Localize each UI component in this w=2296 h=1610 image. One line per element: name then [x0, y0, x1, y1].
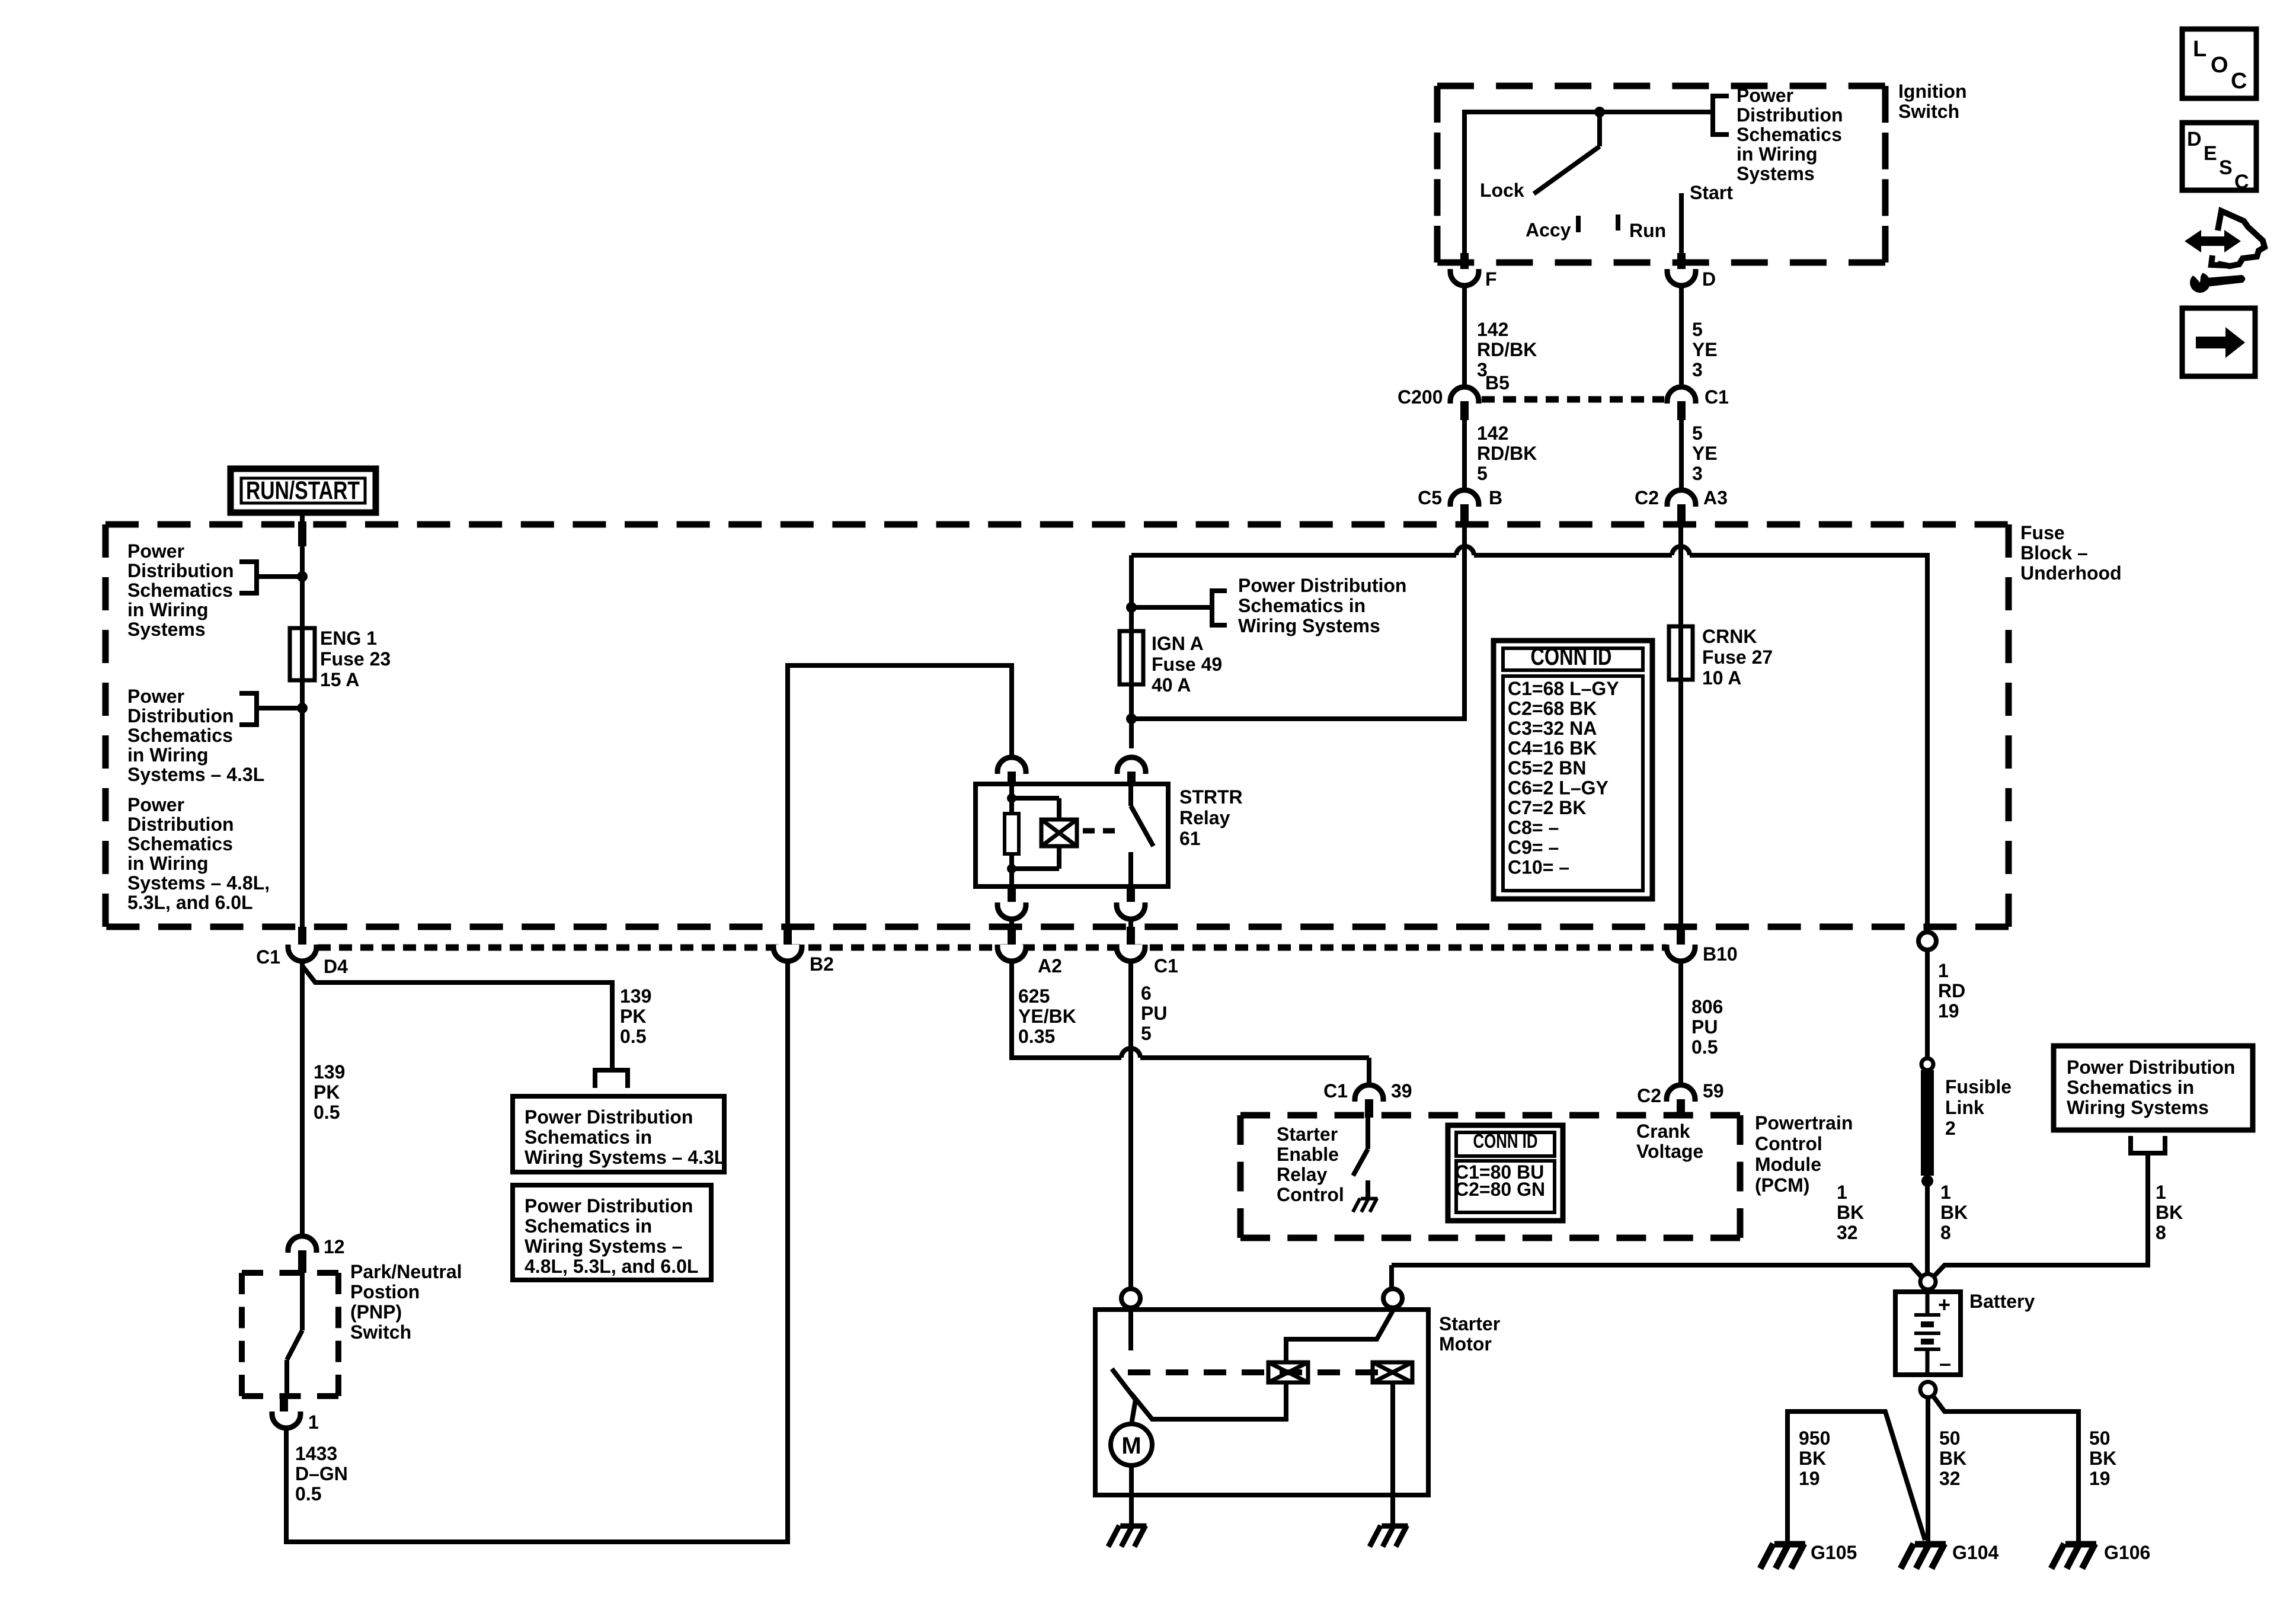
- svg-text:Power DistributionSchematics i: Power DistributionSchematics inWiring Sy…: [525, 1195, 698, 1277]
- wire CRNK vertical upper: [1678, 524, 1683, 626]
- connector relay pin bottom right: [1127, 886, 1135, 902]
- connector C200 B5: [1450, 387, 1479, 404]
- svg-text:39: 39: [1391, 1080, 1412, 1102]
- connector C200 C1: [1667, 387, 1696, 404]
- wire hop over CRNK wire: [1672, 546, 1690, 555]
- connector C1 39: [1355, 1085, 1383, 1102]
- PNP switch internals: [300, 1273, 305, 1330]
- svg-text:B2: B2: [810, 953, 834, 975]
- RUN/START label box: [231, 469, 376, 513]
- bracket to Power Distribution Schematics 1: [239, 562, 257, 593]
- bracket to reference boxes: [595, 1070, 628, 1088]
- node fusible link bottom: [1921, 1175, 1933, 1187]
- wire F to C200: [1462, 286, 1467, 388]
- relay switch fixed contact: [1128, 852, 1133, 886]
- svg-text:B: B: [1489, 487, 1502, 508]
- wire ignition feed horizontal: [1464, 110, 1713, 114]
- relay STRTR box: [976, 784, 1168, 886]
- connector C2 A3: [1667, 490, 1696, 507]
- svg-text:StarterMotor: StarterMotor: [1439, 1313, 1500, 1355]
- connector relay pin top left: [997, 757, 1026, 774]
- svg-text:G106: G106: [2104, 1542, 2150, 1563]
- svg-text:M: M: [1121, 1433, 1141, 1459]
- svg-text:CONN ID: CONN ID: [1531, 642, 1612, 670]
- svg-text:C5: C5: [1418, 487, 1442, 508]
- relay linkage dashed: [1083, 828, 1115, 834]
- wire B internal horizontal: [1131, 716, 1467, 721]
- ground G106: [2065, 1541, 2096, 1548]
- C200 connector dashed line: [1482, 396, 1664, 403]
- svg-text:B10: B10: [1703, 943, 1738, 965]
- connector relay pin bottom left: [1008, 886, 1016, 902]
- wire IGN A vertical: [1129, 555, 1134, 631]
- tick Accy: [1576, 216, 1581, 232]
- svg-text:C: C: [2231, 69, 2247, 94]
- starter motor M: [1111, 1424, 1152, 1465]
- node ignition feed junction: [1594, 107, 1605, 117]
- svg-text:CONN ID: CONN ID: [1473, 1130, 1538, 1152]
- wire relay out right: [1128, 919, 1133, 928]
- small circle fusible link top: [1921, 1058, 1933, 1070]
- fuse CRNK Fuse 27: [1678, 626, 1683, 680]
- wire ignition feed vertical: [1462, 110, 1467, 253]
- fuse block bottom connector dashed line: [318, 945, 1667, 951]
- svg-text:C1: C1: [1705, 386, 1729, 408]
- starter enable switch: [1366, 1118, 1370, 1149]
- tick Run: [1616, 215, 1620, 231]
- wire B internal vertical: [1462, 524, 1467, 719]
- svg-text:G105: G105: [1811, 1542, 1857, 1563]
- connector B10: [1677, 927, 1685, 947]
- wire hop over B wire: [1456, 546, 1474, 555]
- starter switch lever: [1112, 1369, 1136, 1400]
- node ENG1 upper junction: [297, 571, 308, 582]
- wire to bracket 3: [1131, 605, 1212, 610]
- wire C1 to starter motor: [1128, 961, 1133, 1289]
- relay switch lever: [1131, 806, 1153, 846]
- svg-text:A3: A3: [1703, 487, 1728, 508]
- bracket to Power Distribution Schematics 2: [239, 693, 257, 725]
- ground (starter solenoid): [1382, 1523, 1408, 1529]
- wire RUN/START to fuse: [300, 513, 305, 628]
- connector relay pin top right: [1117, 757, 1146, 774]
- wire M to ground: [1129, 1465, 1134, 1523]
- node relay coil bottom: [1007, 864, 1016, 873]
- icon vehicle with arrow and wrench: [2185, 230, 2241, 252]
- wire D4 down to PNP: [300, 961, 305, 1238]
- relay coil pin wire: [1009, 784, 1014, 814]
- fusible link 2: [1921, 1070, 1934, 1176]
- wire hop A2 over C1: [1121, 1048, 1140, 1058]
- wire reference box to battery: [1933, 1153, 2148, 1277]
- battery cells: [1926, 1289, 1930, 1315]
- node relay coil top: [1007, 793, 1016, 803]
- wire battery negative to G106 branch: [1933, 1395, 2078, 1541]
- reference box Power Distribution (right): [2054, 1046, 2253, 1130]
- svg-text:D4: D4: [324, 956, 348, 977]
- svg-text:Lock: Lock: [1480, 180, 1524, 201]
- ground (starter motor M): [1120, 1523, 1146, 1529]
- wire battery negative to G104: [1926, 1396, 1930, 1541]
- wire G105 branch: [1787, 1411, 1925, 1541]
- bracket to Power Distribution Schematics (ignition): [1713, 96, 1729, 135]
- fuse IGN A Fuse 49: [1129, 631, 1134, 684]
- svg-text:C1: C1: [1154, 955, 1178, 977]
- svg-text:B5: B5: [1485, 372, 1510, 393]
- svg-text:59: 59: [1703, 1080, 1724, 1102]
- svg-text:D: D: [1702, 268, 1716, 290]
- wire relay out left: [1009, 919, 1014, 928]
- svg-text:G104: G104: [1952, 1542, 1998, 1563]
- relay resistor: [1005, 814, 1019, 854]
- connector F: [1460, 253, 1469, 271]
- svg-text:12: 12: [324, 1236, 345, 1257]
- junction circle battery positive: [1920, 1274, 1936, 1289]
- wire battery to starter solenoid: [1392, 1265, 1923, 1278]
- wire feed to fusible link: [1925, 950, 1930, 1059]
- fuse block dashed box: [105, 521, 2009, 528]
- connector C1 (relay output): [1127, 927, 1135, 947]
- wire D to C1: [1679, 286, 1684, 388]
- junction circle fuse block feed: [1918, 932, 1936, 950]
- svg-text:C1=80 BUC2=80 GN: C1=80 BUC2=80 GN: [1455, 1161, 1545, 1200]
- wire fusible link to battery: [1925, 1181, 1930, 1275]
- bracket below reference box: [2131, 1136, 2165, 1153]
- wire main feed right vertical: [1925, 553, 1930, 933]
- connector C5 B: [1450, 490, 1479, 507]
- wire solenoid corner: [1389, 1265, 1394, 1289]
- svg-text:C1: C1: [256, 946, 280, 968]
- svg-text:RUN/START: RUN/START: [246, 476, 360, 505]
- connector C1 D4: [298, 927, 306, 947]
- battery box: [1895, 1292, 1961, 1375]
- junction circle starter right: [1383, 1289, 1402, 1308]
- icon forward arrow box: [2182, 308, 2255, 376]
- svg-text:Battery: Battery: [1969, 1291, 2035, 1312]
- wire ENG1 to C1 connector: [300, 680, 305, 935]
- wire to bracket 2: [257, 706, 302, 710]
- ground (starter enable): [1361, 1197, 1378, 1201]
- wire B5 to C5: [1462, 420, 1467, 491]
- reference box Wiring Systems 4.8 5.3 6.0: [513, 1185, 711, 1280]
- icon DESC box: [2182, 123, 2256, 190]
- starter switch stub: [1128, 1308, 1133, 1350]
- wire Start contact: [1679, 193, 1684, 253]
- relay resistor bottom wire: [1009, 854, 1014, 886]
- starter hold-in coil: [1373, 1362, 1412, 1382]
- junction circle starter left: [1121, 1289, 1140, 1308]
- wire solenoid to ground: [1390, 1382, 1395, 1523]
- svg-text:C: C: [2234, 171, 2249, 193]
- PCM dashed box: [1240, 1112, 1740, 1119]
- ignition switch lever: [1597, 112, 1602, 146]
- svg-text:F: F: [1485, 268, 1497, 290]
- svg-text:C1: C1: [1323, 1080, 1348, 1102]
- relay coil branch bottom: [1057, 846, 1061, 869]
- reference box Wiring Systems 4.3L: [513, 1096, 724, 1172]
- node IGN A relay junction: [1126, 713, 1137, 724]
- svg-text:+: +: [1938, 1292, 1950, 1317]
- wire B2 internal: [788, 665, 1012, 928]
- svg-text:S: S: [2219, 156, 2233, 179]
- wire to bracket 1: [257, 574, 302, 579]
- svg-text:A2: A2: [1038, 955, 1062, 977]
- wire B10 to C2 59: [1678, 961, 1683, 1085]
- svg-text:IgnitionSwitch: IgnitionSwitch: [1898, 81, 1967, 122]
- svg-text:E: E: [2204, 142, 2217, 165]
- fuse ENG 1 Fuse 23: [300, 628, 305, 680]
- svg-text:–: –: [1939, 1351, 1951, 1375]
- node IGN A bracket junction: [1126, 602, 1137, 613]
- connector C2 59: [1667, 1085, 1695, 1102]
- wire IGN A to node: [1129, 684, 1134, 748]
- relay coil branch top: [1012, 796, 1059, 801]
- starter coil return: [1131, 1382, 1286, 1419]
- svg-text:Run: Run: [1629, 220, 1666, 241]
- connector PNP pin 12: [288, 1236, 316, 1253]
- svg-text:StarterEnableRelayControl: StarterEnableRelayControl: [1277, 1124, 1344, 1205]
- starter pull-in coil: [1268, 1362, 1308, 1382]
- svg-text:C2: C2: [1635, 487, 1659, 508]
- wire A2 to starter enable: [1012, 961, 1121, 1058]
- connector D: [1677, 253, 1686, 271]
- PCM CONN ID table: [1448, 1125, 1563, 1221]
- icon LOC box: [2182, 29, 2256, 98]
- svg-text:D: D: [2187, 128, 2202, 151]
- PNP switch dashed box: [242, 1270, 338, 1276]
- CONN ID table (fuse block): [1494, 641, 1652, 899]
- starter motor box: [1095, 1310, 1428, 1495]
- svg-text:1: 1: [308, 1411, 319, 1433]
- svg-text:Accy: Accy: [1526, 219, 1571, 241]
- node ENG1 lower junction: [297, 703, 308, 713]
- starter linkage dashed: [1128, 1369, 1392, 1375]
- connector B2: [784, 927, 792, 947]
- wire main feed horizontal: [1131, 553, 1456, 558]
- relay coil: [1041, 820, 1077, 846]
- wire CRNK vertical lower: [1678, 680, 1683, 935]
- connector A2: [1008, 927, 1016, 947]
- connector PNP pin 1: [280, 1396, 288, 1414]
- ground G104: [1915, 1541, 1946, 1548]
- relay switch pin wire: [1128, 784, 1133, 806]
- ground G105: [1774, 1541, 1805, 1548]
- starter enable ground wire: [1366, 1180, 1370, 1197]
- junction circle battery negative: [1920, 1382, 1936, 1397]
- bracket to Power Distribution Schematics (IGN A): [1212, 591, 1227, 625]
- svg-text:O: O: [2211, 53, 2228, 78]
- wire D4 split right branch: [302, 961, 612, 1070]
- starter coil feed: [1286, 1311, 1393, 1362]
- wire C1 to C2: [1679, 420, 1684, 491]
- svg-text:L: L: [2193, 37, 2207, 62]
- svg-text:Start: Start: [1690, 182, 1733, 203]
- ignition switch dashed box: [1437, 83, 1885, 89]
- wire PNP to B2: [286, 961, 788, 1542]
- svg-text:C2: C2: [1637, 1085, 1661, 1106]
- svg-text:C200: C200: [1398, 386, 1443, 408]
